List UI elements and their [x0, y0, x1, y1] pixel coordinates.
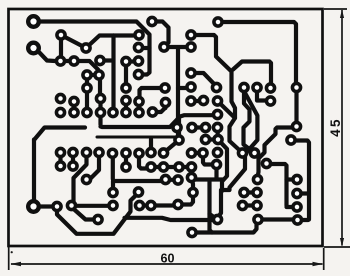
pad P42 at 113,112.5: [109, 108, 117, 116]
pad P67 at 217.5,152.5: [213, 148, 221, 156]
trace 139-153 corner to 151-167: [139, 156, 148, 169]
trace diagonal 86-48 to y35 rail: [86, 36, 139, 49]
pad P57 at 73,152.5: [69, 148, 77, 156]
pad P76 at 191.5,167: [187, 163, 195, 171]
pad P83 at 257.5,179.5: [253, 175, 261, 183]
pad P95 at 151,205.5: [147, 201, 155, 209]
pad P80 at 165.5,179.5: [161, 175, 169, 183]
pad P79 at 191.5,177.5: [187, 173, 195, 181]
extension line top right: [324, 8, 347, 10]
trace 242-62 corner: [268, 87, 272, 88]
pad P22 at 126,88: [122, 84, 130, 92]
pad P6 at 152,21.5: [148, 17, 156, 25]
trace line B: [244, 90, 255, 153]
pad P51 at 296.5,126.5: [292, 122, 300, 130]
pad P17 at 191,87: [187, 83, 195, 91]
pad P99 at 297,207: [293, 203, 301, 211]
pad P1 at 61,35: [57, 31, 65, 39]
extension line bottom border right: [324, 246, 350, 248]
trace bar 165-178 y180: [166, 178, 179, 182]
trace bar 244-257 y192: [244, 190, 257, 194]
trace 112 down: [111, 156, 115, 179]
trace 203-153 corner: [203, 156, 215, 165]
pad P84 at 297,179.5: [293, 175, 301, 183]
trace 86 to 71 vertical: [74, 155, 87, 203]
trace from pad 152-21: [152, 22, 169, 47]
trace y220 rail right: [258, 217, 296, 221]
pad P35 at 203.5,100.5: [199, 96, 207, 104]
pad P54 at 218,139.5: [214, 135, 222, 143]
trace diagonal 191-73 to 216-87: [191, 73, 217, 87]
pad P92 at 71.5,205.5: [67, 201, 75, 209]
pad P81 at 178,180: [174, 176, 182, 184]
pad P103 at 297.5,220: [293, 216, 301, 224]
trace 191 col: [189, 167, 193, 176]
trace vertical pad 61-35 to 60.5-61: [59, 37, 63, 59]
arrowhead 60 left: [10, 262, 21, 267]
trace pad 257-87 to 270-101: [257, 90, 270, 101]
trace x309 vertical: [293, 141, 309, 220]
pad P27 at 296.5,87.5: [292, 83, 300, 91]
trace y167 rail: [151, 165, 192, 169]
pad P36 at 217.5,101: [213, 97, 221, 105]
pad P7 at 164,47: [160, 43, 168, 51]
pad P91 at 57,206.5: [53, 202, 61, 210]
pad P8 at 139,35: [135, 31, 143, 39]
trace horiz y180 to 165: [113, 180, 164, 181]
trace 191-177 to 193-192: [192, 180, 193, 190]
pad P16 at 191,73: [187, 69, 195, 77]
pad P100 at 98,219.5: [94, 215, 102, 223]
pad P46 at 217.5,114.5: [213, 110, 221, 118]
trace vertical x178: [176, 48, 180, 139]
trace from pad B2: [38, 51, 61, 62]
trace vert x179 T: [177, 117, 181, 138]
pad P61 at 126,153: [122, 149, 130, 157]
pad P63 at 151,152.5: [147, 148, 155, 156]
trace horiz y179 into E: [192, 178, 224, 180]
pad P12 at 138.5,74.5: [134, 70, 142, 78]
trace y47 rail: [164, 45, 191, 49]
pad P90 at 297,193.5: [293, 189, 301, 197]
pad P18 at 216.5,87.5: [212, 83, 220, 91]
pad P48 at 192,127.5: [188, 123, 196, 131]
board outline border: [9, 9, 323, 246]
trace bar 87-99 y75: [87, 73, 99, 77]
pad P66 at 203,153: [199, 149, 207, 157]
pad P86 at 138.5,192: [134, 188, 142, 196]
pad P60 at 112.5,153.3: [108, 149, 116, 157]
trace stub pad217-165 down: [214, 166, 218, 178]
pad P24 at 244,87.5: [240, 83, 248, 91]
pad P69 at 254.5,153: [250, 149, 258, 157]
trace bar 192-205 y127: [192, 125, 206, 129]
trace vert 100 col a: [98, 78, 102, 97]
trace bar 191-203 y101: [191, 99, 204, 103]
trace pad 165-88 corner: [140, 88, 166, 100]
trace 113 to pad 192: [111, 182, 115, 191]
trace stub 297-179: [287, 177, 297, 181]
pad P74 at 163.5,167: [159, 163, 167, 171]
pad P72 at 126,167: [122, 163, 130, 171]
trace 71 to 98-219: [72, 208, 95, 220]
trace 266-163 to x286: [267, 164, 287, 206]
pad P13 at 191,35: [187, 31, 195, 39]
pad P82 at 86.5,179.5: [82, 175, 90, 183]
pad P68 at 242.5,153: [238, 149, 246, 157]
pad P40 at 87,112.5: [83, 108, 91, 116]
trace vertical x296: [294, 90, 298, 124]
pad P70 at 60.5,166: [56, 162, 64, 170]
pad P45 at 152.5,112: [148, 108, 156, 116]
extension line left below board: [8, 247, 10, 270]
pad P62 at 139,153.3: [135, 149, 143, 157]
pad P94 at 139.5,205.5: [135, 201, 143, 209]
trace vert x34: [32, 140, 36, 201]
pad P73 at 151,167: [147, 163, 155, 171]
pad P23 at 165,88: [161, 84, 169, 92]
pad P3 at 60.5,61: [56, 57, 64, 65]
trace y232 left to pad192: [192, 230, 212, 234]
pad P31 at 126,100.5: [122, 96, 130, 104]
trace stub to pad 191-87: [178, 86, 190, 90]
pad P53 at 205.5,139.5: [201, 135, 209, 143]
trace bar 242-257 y205: [243, 203, 258, 207]
pad P15 at 218,22: [214, 18, 222, 26]
svg-text:60: 60: [160, 251, 174, 265]
trace bar 126 col2: [124, 153, 128, 167]
trace row y61 bar: [61, 59, 75, 63]
speck noise dot: [11, 251, 13, 253]
pad P47 at 177,127.5: [173, 123, 181, 131]
pad P26 at 270.5,88: [266, 84, 274, 92]
trace bottom S path: [57, 193, 139, 234]
pad P98 at 257,205.5: [253, 201, 261, 209]
trace stub pad100-60 to x113: [100, 58, 111, 62]
trace Y right branch: [233, 62, 271, 87]
pad P37 at 270.5,101: [266, 97, 274, 105]
pad P10 at 126,61.5: [122, 57, 130, 65]
pad P101 at 217.5,219.5: [213, 215, 221, 223]
trace net-A top rail: [41, 22, 150, 75]
trace line E: [218, 140, 227, 192]
trace vert x209 and y232 rail: [210, 181, 257, 233]
trace vert 100 col b: [98, 101, 102, 111]
pad P34 at 191,101: [187, 97, 195, 105]
pad P19 at 87,75: [83, 71, 91, 79]
pad P39 at 74,112.5: [70, 108, 78, 116]
pad P50 at 217.5,127.5: [213, 123, 221, 131]
pad P102 at 258,219.5: [254, 215, 262, 223]
trace line D: [258, 128, 295, 178]
arrowhead 60 right: [313, 262, 324, 267]
extension line right below board: [323, 248, 325, 270]
trace vert 87 col b: [85, 91, 89, 111]
trace 165-102 corner to 152-112: [163, 105, 167, 108]
pad P55 at 291,140: [287, 136, 295, 144]
pad P59 at 99,152.5: [95, 148, 103, 156]
trace stub to pad C12: [141, 46, 150, 50]
pad P33 at 165.5,102.5: [161, 98, 169, 106]
trace stub 297-193 to x309: [297, 191, 308, 195]
trace 193-192 corner to 178-204: [180, 195, 193, 205]
dimension line 45 vertical: [341, 10, 343, 246]
arrowhead 45 bottom: [340, 238, 344, 247]
pad P44 at 139,112.5: [135, 108, 143, 116]
pad P52 at 179,140: [175, 136, 183, 144]
pad P20 at 99,75: [95, 71, 103, 79]
pad P30 at 100.5,98.5: [96, 94, 104, 102]
pad P87 at 193,192.5: [189, 188, 197, 196]
arrowhead 45 top: [340, 10, 344, 19]
pad P49 at 205.5,127.5: [201, 123, 209, 131]
trace diag 217-101 to A: [218, 101, 236, 118]
trace y205 rail right: [140, 203, 179, 207]
pad P75 at 179,167: [175, 163, 183, 171]
trace bar 126 col: [124, 103, 128, 111]
pad P38 at 60.5,112.5: [56, 108, 64, 116]
pad P64 at 163.5,153: [159, 149, 167, 157]
pad P58 at 86.5,152.5: [82, 148, 90, 156]
pad P32 at 139,101.5: [135, 97, 143, 105]
pad P77 at 216.5,164.5: [212, 160, 220, 168]
trace left edge bend: [34, 128, 85, 141]
pad P4 at 74,61: [70, 57, 78, 65]
trace bar 60 col: [58, 153, 62, 167]
pad P88 at 244,192.5: [240, 188, 248, 196]
trace stub H2 to 151: [149, 139, 153, 149]
trace diagonal 61-35 to 86-48: [61, 35, 86, 48]
trace row y61 to pad 99-75: [74, 61, 99, 73]
big pad BP3 at 33.5,206.5: [28, 201, 39, 212]
big pad BP2 at 33.5,48: [28, 43, 39, 54]
trace bar 191-203 y153: [192, 151, 204, 155]
trace vert 87 col a: [85, 77, 89, 86]
trace vertical x113: [111, 36, 115, 112]
trace bottom rail to 218: [125, 218, 213, 220]
trace 152-112 to 165-102: [153, 105, 166, 112]
pad P41 at 100.5,112.5: [96, 108, 104, 116]
pad P25 at 257,87.5: [253, 83, 261, 91]
pad P43 at 126,112.5: [122, 108, 130, 116]
trace vert 100 col c: [98, 115, 102, 125]
trace bar 73 col: [71, 153, 75, 167]
trace stub 297-207: [287, 205, 297, 209]
pad P93 at 113,205.5: [109, 201, 117, 209]
pad P9 at 138.5,47.5: [134, 43, 142, 51]
trace net-Y from 191-35: [191, 35, 243, 153]
trace diag 163-153 to 179-140: [164, 140, 180, 153]
pad P56 at 60.5,152.5: [56, 148, 64, 156]
trace 99 to 86-179: [91, 155, 99, 178]
pad P14 at 191,47: [187, 43, 195, 51]
pad P104 at 192,232.5: [188, 228, 196, 236]
big pad BP1 at 33.5,21.5: [28, 16, 39, 27]
svg-text:45: 45: [328, 117, 343, 137]
pad P2 at 86,48: [82, 44, 90, 52]
trace big pad to 57: [34, 204, 58, 208]
trace line C: [218, 92, 258, 218]
pad P11 at 138.5,61: [134, 57, 142, 65]
pad P97 at 242.5,205.5: [238, 201, 246, 209]
trace big horizontal y127 seg2: [101, 115, 215, 127]
trace bar 205-218 y139: [206, 137, 219, 141]
pad P89 at 257,192.5: [253, 188, 261, 196]
pad P28 at 60.5,98.5: [56, 94, 64, 102]
pad P5 at 100,60.5: [96, 56, 104, 64]
pad P96 at 178,204.5: [174, 200, 182, 208]
pad P21 at 87,88: [83, 84, 91, 92]
pad P78 at 266.5,163.5: [262, 159, 270, 167]
trace bar 126-138 y61: [126, 59, 139, 63]
trace y206 rail mid: [72, 204, 114, 208]
pad P65 at 191.5,153: [187, 149, 195, 157]
trace vert 217 col: [216, 129, 220, 138]
pad P85 at 113,192.5: [109, 188, 117, 196]
trace bar 139 col: [137, 102, 141, 113]
dimension line 60 horizontal: [11, 263, 323, 265]
pad P29 at 74,101.5: [70, 97, 78, 105]
trace link x209 to pad218: [210, 214, 217, 219]
trace from pad 218-22: [218, 22, 296, 85]
trace 297 to x309: [298, 218, 309, 222]
trace vert 126 to 88: [124, 64, 128, 85]
trace H2 y137: [97, 136, 178, 139]
pad P71 at 73,166: [69, 162, 77, 170]
